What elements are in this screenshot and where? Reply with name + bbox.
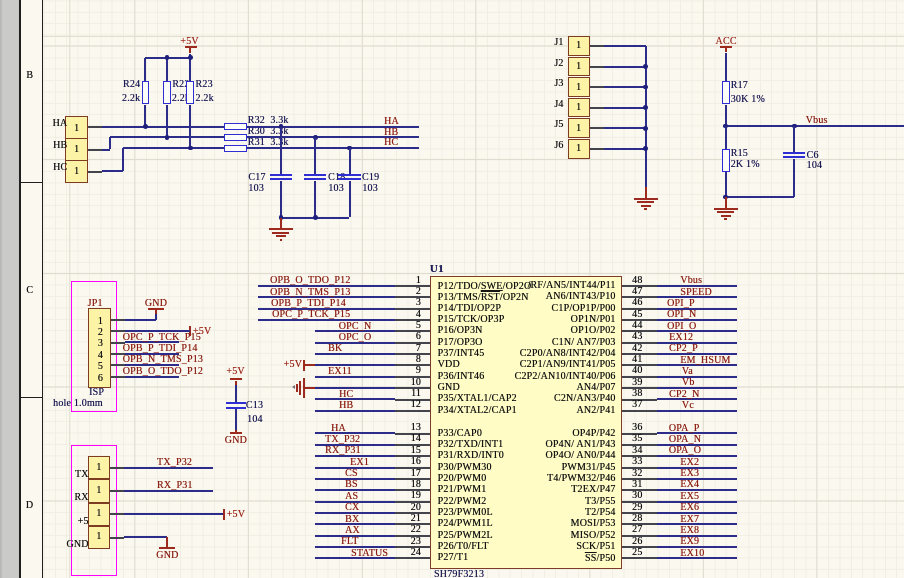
connector pin +5 (1-pin) bbox=[88, 503, 110, 526]
junction bbox=[165, 55, 170, 60]
wire net HC right bbox=[247, 147, 419, 149]
wire JP1 pin4 net OPB_P_TDI_P14 bbox=[111, 353, 125, 355]
junction bbox=[279, 124, 284, 129]
connector J4 (1-pin) bbox=[568, 98, 590, 118]
wire R24 to net HA bbox=[144, 105, 146, 127]
resistor R22 2.2k bbox=[163, 81, 171, 104]
U1 pin 42 (C2P0/AN8/INT42/P04) bbox=[622, 353, 657, 355]
U1 pin 14 (P32/TXD/INT1) bbox=[395, 444, 430, 446]
connector pin TX (1-pin) bbox=[88, 456, 110, 479]
zone letter D bbox=[26, 501, 33, 511]
U1 pin 6 (P17/OP3O) bbox=[395, 342, 430, 344]
U1 pin 2 (P13/TMS/RST/OP2N) bbox=[395, 296, 430, 298]
connector pin GND (1-pin) bbox=[88, 526, 110, 549]
wire net HA (connector to R32) bbox=[88, 126, 102, 128]
wire ACC to R17 bbox=[725, 53, 727, 82]
U1 pin 44 (OP1O/P02) bbox=[622, 330, 657, 332]
wire C17 column bbox=[280, 127, 282, 175]
wire net HC (connector to R31) bbox=[88, 171, 102, 173]
U1 pin 22 (P25/PWM2L) bbox=[395, 535, 430, 537]
wire R15 C6 to ground bbox=[725, 172, 727, 197]
wire JP1 pin3 net OPC_P_TCK_P15 bbox=[111, 342, 125, 344]
wire R22 to net HB bbox=[166, 105, 168, 138]
net label HA bbox=[384, 117, 399, 127]
U1 pin 28 (MOSI/P53) bbox=[622, 523, 657, 525]
U1 pin 23 (P26/T0/FLT) bbox=[395, 546, 430, 548]
zone letter B bbox=[26, 71, 33, 81]
wire R17 to Vbus node bbox=[725, 105, 727, 127]
U1 pin 27 (MISO/P52) bbox=[622, 535, 657, 537]
wire C6 column bbox=[793, 126, 795, 152]
U1 pin 1 (P12/TDO/SWE/OP2O) bbox=[395, 285, 430, 287]
net label OPB_N_TMS_P13 bbox=[123, 355, 203, 365]
wire +5V rail to R24 R22 R23 bbox=[189, 54, 191, 58]
U1 pin 17 (P20/PWM0) bbox=[395, 478, 430, 480]
wire net HA right bbox=[247, 126, 419, 128]
connector HB (1-pin header) bbox=[65, 138, 88, 161]
U1 pin 24 (P27/T1) bbox=[395, 557, 430, 559]
junction bbox=[723, 195, 728, 200]
connector J5 (1-pin) bbox=[568, 118, 590, 138]
net label HB bbox=[384, 128, 398, 138]
U1 pin 46 (C1P/OP1P/P00) bbox=[622, 308, 657, 310]
wire JP1 pin2 to +5V bbox=[111, 330, 125, 332]
U1 pin 18 (P21/PWM1) bbox=[395, 489, 430, 491]
resistor R15 2K 1% bbox=[722, 149, 730, 172]
wire +5 pin to +5V bbox=[110, 513, 124, 515]
connector HC (1-pin header) bbox=[65, 160, 88, 183]
U1 pin 12 (P34/XTAL2/CAP1) bbox=[395, 410, 430, 412]
connector pin RX (1-pin) bbox=[88, 479, 110, 502]
wire C13 to GND bbox=[235, 409, 237, 430]
U1 pin 41 (C2P1/AN9/INT41/P05) bbox=[622, 364, 657, 366]
wire JP1 pin1 to GND bbox=[155, 314, 157, 320]
U1 pin 25 (SS/P50) bbox=[622, 557, 657, 559]
U1 pin 9 (P36/INT46) bbox=[395, 376, 430, 378]
net label RX_P31 bbox=[157, 481, 193, 491]
box ISP outline bbox=[71, 281, 117, 412]
U1 pin 38 (C2N/AN3/P40) bbox=[622, 399, 657, 401]
wire J1-J6 bus to ground bbox=[590, 45, 604, 47]
wire GND pin bbox=[110, 537, 124, 539]
power port +5V (C13) bbox=[226, 367, 244, 377]
junction bbox=[643, 64, 648, 69]
U1 pin 34 (OP4O/ AN0/P44) bbox=[622, 455, 657, 457]
junction bbox=[643, 146, 648, 151]
U1 pin 47 (AN6/INT43/P10) bbox=[622, 296, 657, 298]
U1 pin 11 (P35/XTAL1/CAP2) bbox=[395, 399, 430, 401]
junction bbox=[792, 124, 797, 129]
junction bbox=[165, 135, 170, 140]
ground (J connectors) bbox=[645, 187, 647, 198]
power port ACC bbox=[715, 37, 736, 47]
wire C19 column bbox=[349, 148, 351, 174]
power port +5V (pull-up rail) bbox=[180, 37, 198, 47]
IC U1 SH79F3213 body bbox=[430, 276, 622, 569]
power port GND (TX connector) bbox=[159, 547, 176, 549]
net label HC bbox=[384, 138, 398, 148]
junction bbox=[188, 55, 193, 60]
capacitor C6 104 bbox=[783, 152, 805, 154]
wire C18 column bbox=[314, 137, 316, 174]
U1 pin 13 (P33/CAP0) bbox=[395, 433, 430, 435]
U1 pin 31 (T2EX/P47) bbox=[622, 489, 657, 491]
U1 pin 10 (GND) bbox=[395, 387, 430, 389]
wire net TX_P32 bbox=[110, 467, 124, 469]
resistor R24 2.2k bbox=[142, 81, 150, 104]
junction bbox=[723, 124, 728, 129]
U1 pin 48 (/RF/AN5/INT44/P11) bbox=[622, 285, 657, 287]
power port +5V (JP1 pin 2) bbox=[189, 326, 191, 337]
junction bbox=[347, 146, 352, 151]
net label TX_P32 bbox=[157, 458, 192, 468]
U1 pin 5 (P16/OP3N) bbox=[395, 330, 430, 332]
junction bbox=[143, 124, 148, 129]
power port GND (JP1 pin 1) bbox=[145, 299, 167, 309]
junction bbox=[279, 215, 284, 220]
wire R23 to net HC bbox=[189, 105, 191, 149]
wire net Vbus bbox=[726, 125, 904, 127]
net label OPC_P_TCK_P15 bbox=[123, 333, 201, 343]
wire net HB right bbox=[247, 136, 419, 138]
U1 pin 4 (P15/TCK/OP3P) bbox=[395, 319, 430, 321]
U1 pin 43 (C1N/ AN7/P03) bbox=[622, 342, 657, 344]
U1 pin 15 (P31/RXD/INT0) bbox=[395, 455, 430, 457]
net label OPB_P_TDI_P14 bbox=[123, 344, 198, 354]
junction bbox=[313, 135, 318, 140]
U1 pin 20 (P23/PWM0L) bbox=[395, 512, 430, 514]
ground (C17 C18 C19) bbox=[280, 218, 282, 229]
U1 pin 36 (OP4P/P42) bbox=[622, 433, 657, 435]
U1 pin 16 (P30/PWM30) bbox=[395, 467, 430, 469]
ground (R15 C6) bbox=[725, 197, 727, 208]
U1 pin 21 (P24/PWM1L) bbox=[395, 523, 430, 525]
capacitor C19 103 bbox=[338, 174, 360, 176]
U1 pin 39 (AN4/P07) bbox=[622, 387, 657, 389]
connector HA (1-pin header) bbox=[65, 116, 88, 139]
U1 pin 45 (OP1N/P01) bbox=[622, 319, 657, 321]
junction bbox=[313, 215, 318, 220]
U1 pin 40 (C2P2/AN10/INT40/P06) bbox=[622, 376, 657, 378]
U1 pin 8 (VDD) bbox=[395, 364, 430, 366]
resistor R31 3.3k bbox=[224, 145, 247, 152]
zone letter C bbox=[26, 286, 33, 296]
wire Vbus to R15 bbox=[725, 126, 727, 149]
power port GND (C13) bbox=[235, 430, 237, 432]
U1 pin 37 (AN2/P41) bbox=[622, 410, 657, 412]
junction bbox=[643, 105, 648, 110]
capacitor C18 103 bbox=[304, 174, 326, 176]
U1 pin 26 (SCK/P51) bbox=[622, 546, 657, 548]
wire net RX_P31 bbox=[110, 490, 124, 492]
wire JP1 pin6 net OPB_O_TDO_P12 bbox=[111, 376, 125, 378]
capacitor C17 103 bbox=[270, 174, 292, 176]
U1 pin 3 (P14/TDI/OP2P) bbox=[395, 308, 430, 310]
power port +5V (TX connector) bbox=[223, 509, 225, 520]
wire JP1 pin5 net OPB_N_TMS_P13 bbox=[111, 364, 125, 366]
U1 pin 19 (P22/PWM2) bbox=[395, 501, 430, 503]
resistor R30 3.3k bbox=[224, 134, 247, 141]
box TX RX outline bbox=[71, 445, 117, 576]
wire +5V to C13 bbox=[235, 385, 237, 402]
net label Vbus bbox=[806, 116, 828, 126]
wire net HB (connector to R30) bbox=[88, 149, 102, 151]
capacitor C13 104 bbox=[226, 402, 246, 404]
resistor R32 3.3k bbox=[224, 123, 247, 130]
U1 pin 33 (PWM31/P45) bbox=[622, 467, 657, 469]
connector J1 (1-pin) bbox=[568, 36, 590, 56]
U1 pin 30 (T3/P55) bbox=[622, 501, 657, 503]
junction bbox=[643, 126, 648, 131]
connector J6 (1-pin) bbox=[568, 139, 590, 159]
connector JP1 (ISP 6-pin header) bbox=[88, 299, 103, 309]
wire cap ground rail bbox=[281, 217, 350, 219]
net label OPB_O_TDO_P12 bbox=[123, 367, 203, 377]
junction bbox=[643, 85, 648, 90]
connector J3 (1-pin) bbox=[568, 77, 590, 97]
resistor R17 30K 1% bbox=[722, 81, 730, 104]
U1 pin 7 (P37/INT45) bbox=[395, 353, 430, 355]
U1 pin 35 (OP4N/ AN1/P43) bbox=[622, 444, 657, 446]
U1 pin 32 (T4/PWM32/P46) bbox=[622, 478, 657, 480]
connector J2 (1-pin) bbox=[568, 57, 590, 77]
junction bbox=[188, 146, 193, 151]
resistor R23 2.2k bbox=[186, 81, 194, 104]
U1 pin 29 (T2/P54) bbox=[622, 512, 657, 514]
